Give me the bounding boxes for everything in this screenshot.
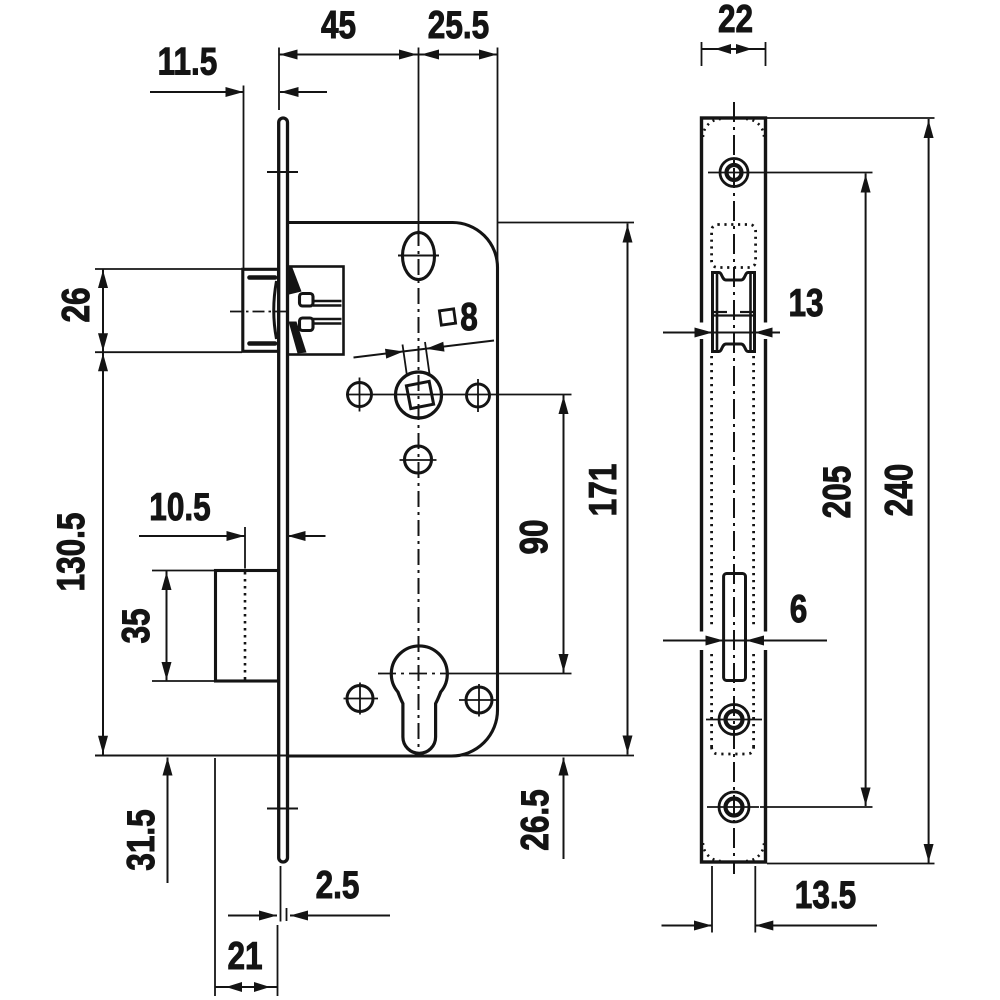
svg-text:2.5: 2.5 <box>316 864 360 907</box>
svg-text:45: 45 <box>321 4 356 47</box>
svg-text:205: 205 <box>816 466 859 519</box>
bottom screw hole <box>707 792 759 822</box>
svg-text:6: 6 <box>790 588 808 631</box>
cylinder hole europrofile <box>391 646 447 753</box>
svg-text:26.5: 26.5 <box>514 789 557 850</box>
svg-text:8: 8 <box>460 296 478 339</box>
latch centerline <box>230 311 287 313</box>
svg-text:240: 240 <box>878 464 921 517</box>
dim 2.5 <box>228 864 390 921</box>
plate cutout dotted sides <box>712 356 754 754</box>
svg-text:13.5: 13.5 <box>795 874 856 917</box>
dim 25.5 <box>419 4 498 266</box>
deadbolt face dotted <box>244 572 247 680</box>
latch bolt cross-section lower wedge <box>289 322 307 354</box>
latch bolt head <box>243 269 279 351</box>
dim 240 <box>767 118 935 864</box>
latch bevel arc <box>274 281 277 339</box>
dim 26.5 <box>514 758 568 860</box>
mid screw hole <box>706 705 762 735</box>
dim 13 <box>663 282 824 337</box>
spring channel lines <box>313 301 342 324</box>
faceplate break tick bottom <box>267 808 298 810</box>
spring clip lower <box>300 318 314 331</box>
dim 13.5 <box>662 866 878 933</box>
oval crosshair tick <box>398 255 439 257</box>
lock case outline <box>288 222 498 756</box>
striker plate outline <box>702 118 766 862</box>
latch bolt front view <box>711 272 756 353</box>
hole below follower <box>400 446 437 473</box>
svg-text:10.5: 10.5 <box>149 486 210 529</box>
faceplate break tick top <box>267 171 298 173</box>
top screw hole <box>708 159 760 187</box>
deadbolt <box>216 571 279 682</box>
dim 35 <box>115 571 214 682</box>
top oval slot <box>403 233 435 280</box>
follower (handle hub) <box>396 372 442 418</box>
svg-text:130.5: 130.5 <box>50 513 93 592</box>
dim 171 <box>452 223 634 756</box>
follower side hole left <box>348 378 372 412</box>
svg-text:26: 26 <box>55 287 98 322</box>
dim 90 <box>513 395 568 674</box>
follower side hole right <box>467 379 490 412</box>
latch lip bottom <box>250 341 276 346</box>
plate edge gaps (masks) <box>696 323 771 651</box>
faceplate (left view, edge-on) <box>279 118 288 862</box>
dim 6 <box>663 588 827 645</box>
svg-text:13: 13 <box>788 282 823 325</box>
spring clip upper <box>300 294 314 307</box>
dim 130.5 <box>50 352 287 755</box>
dim square hole 8 <box>354 296 495 376</box>
plate corner arcs dotted <box>703 119 764 861</box>
cylinder side hole left <box>344 683 379 715</box>
cylinder centerline horizontal <box>378 673 572 675</box>
vertical centerline <box>418 48 420 754</box>
follower centerline horizontal <box>346 394 572 396</box>
latch interior box <box>288 267 344 355</box>
latch bolt cross-section upper wedge <box>287 267 302 296</box>
latch lip top <box>250 275 276 280</box>
plate centerline <box>733 102 735 874</box>
svg-text:21: 21 <box>227 935 262 978</box>
follower square hole 8mm <box>406 381 433 408</box>
cylinder side hole right <box>459 684 498 717</box>
dim 45 <box>279 4 419 110</box>
dim 22 <box>702 0 766 66</box>
latch cutout dotted <box>712 225 756 268</box>
svg-text:35: 35 <box>115 608 158 643</box>
svg-text:171: 171 <box>582 464 625 517</box>
dim 205 <box>760 173 873 808</box>
deadbolt slot <box>724 574 746 681</box>
svg-text:11.5: 11.5 <box>158 41 218 84</box>
svg-text:90: 90 <box>513 519 556 554</box>
dim 11.5 <box>150 41 327 268</box>
svg-text:31.5: 31.5 <box>120 809 163 870</box>
dim 26 <box>55 269 242 352</box>
dim 31.5 <box>120 758 172 884</box>
svg-text:25.5: 25.5 <box>428 4 489 47</box>
dim 21 <box>215 758 278 996</box>
dim 10.5 <box>139 486 326 568</box>
svg-text:22: 22 <box>718 0 753 41</box>
